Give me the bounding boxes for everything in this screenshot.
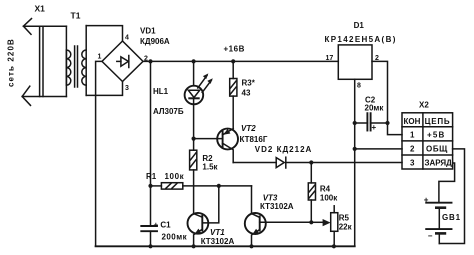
LED HL1 bbox=[185, 61, 213, 138]
junction: pin2 line / C2 bbox=[385, 121, 389, 125]
svg-text:4: 4 bbox=[125, 35, 129, 42]
svg-text:Т1: Т1 bbox=[71, 11, 81, 21]
junction: pin8 / C2 bbox=[353, 121, 357, 125]
junction: VT3 emitter to rail bbox=[249, 244, 253, 248]
svg-text:R3*: R3* bbox=[242, 78, 256, 87]
svg-text:2: 2 bbox=[410, 145, 415, 154]
wire: to X2 ОБЩ row bbox=[355, 148, 402, 150]
junction on rail at C1/R1 feed bbox=[148, 59, 152, 63]
svg-text:D1: D1 bbox=[354, 21, 365, 30]
svg-text:43: 43 bbox=[242, 88, 251, 97]
svg-text:Х2: Х2 bbox=[419, 101, 429, 110]
capacitor C2 bbox=[355, 113, 388, 132]
resistor R2 bbox=[190, 139, 197, 214]
svg-text:КД906А: КД906А bbox=[140, 37, 170, 46]
wire: X2 ЗАРЯД to battery plus bbox=[439, 163, 455, 203]
svg-text:КТ816Г: КТ816Г bbox=[240, 135, 268, 144]
svg-text:ОБЩ: ОБЩ bbox=[426, 145, 448, 154]
svg-text:100к: 100к bbox=[165, 172, 185, 181]
svg-text:100к: 100к bbox=[320, 194, 338, 203]
wire: bridge pin 1 to ground rail bbox=[96, 61, 102, 246]
svg-text:+: + bbox=[372, 123, 377, 132]
junction: R4 / VT3 base / R5 wiper bbox=[309, 220, 313, 224]
junction: C1 to rail bbox=[148, 244, 152, 248]
svg-text:1.5к: 1.5к bbox=[202, 163, 218, 172]
svg-text:АЛ307Б: АЛ307Б bbox=[153, 107, 184, 116]
junction: pin8 / X2 common wire bbox=[353, 147, 357, 151]
svg-text:1: 1 bbox=[410, 131, 415, 140]
svg-text:+16В: +16В bbox=[224, 45, 245, 54]
svg-text:ЗАРЯД: ЗАРЯД bbox=[425, 159, 453, 168]
svg-text:GB1: GB1 bbox=[442, 213, 461, 222]
wire: T1 secondary bottom to bridge pin 3 bbox=[86, 82, 122, 96]
svg-text:VD2 КД212А: VD2 КД212А bbox=[255, 145, 312, 154]
svg-text:VT1: VT1 bbox=[210, 228, 225, 237]
junction on rail at HL1 bbox=[192, 59, 196, 63]
junction: VD2 wire to R4 bbox=[309, 160, 313, 164]
svg-text:1: 1 bbox=[98, 54, 102, 61]
svg-text:VT2: VT2 bbox=[241, 124, 256, 133]
battery GB1 bbox=[424, 195, 452, 243]
transistor VT1 (KT3102A, NPN, mirrored) bbox=[188, 213, 209, 246]
connector X1 arrows (mains plug) bbox=[22, 19, 43, 106]
junction: VT1 emitter to rail bbox=[192, 244, 196, 248]
diode VD2 bbox=[233, 157, 402, 168]
svg-text:Х1: Х1 bbox=[35, 4, 46, 14]
junction: R5 to rail bbox=[332, 244, 336, 248]
svg-text:КТ3102А: КТ3102А bbox=[260, 202, 294, 211]
junction: HL1 cathode / VT2 base / R2 bbox=[192, 137, 196, 141]
svg-text:3: 3 bbox=[125, 85, 129, 92]
svg-text:R4: R4 bbox=[320, 185, 331, 194]
svg-text:КР142ЕН5А(В): КР142ЕН5А(В) bbox=[325, 35, 397, 44]
transistor VT3 (KT3102A, NPN, mirrored) bbox=[245, 186, 311, 246]
ground rail bbox=[96, 245, 355, 247]
svg-text:сеть 220В: сеть 220В bbox=[7, 38, 16, 87]
voltage regulator D1 bbox=[338, 45, 372, 79]
wire: D1 pin 8 (common) down to ground rail bbox=[354, 79, 356, 246]
transformer T1 bbox=[66, 26, 86, 97]
transistor VT2 (KT816G, PNP) bbox=[194, 129, 238, 163]
bridge rectifier VD1 bbox=[102, 41, 143, 82]
svg-text:3: 3 bbox=[410, 159, 415, 168]
wire: riser to VT1 base bbox=[202, 186, 219, 223]
svg-text:VD1: VD1 bbox=[140, 27, 156, 36]
junction on rail at R3 bbox=[231, 59, 235, 63]
wire: T1 secondary top to bridge pin 4 bbox=[86, 26, 122, 41]
svg-text:КТ3102А: КТ3102А bbox=[201, 237, 235, 246]
potentiometer R5 bbox=[311, 206, 338, 247]
connector X2 table bbox=[402, 113, 453, 169]
svg-text:ЦЕПЬ: ЦЕПЬ bbox=[425, 117, 451, 126]
wire: X1 bottom to T1 primary bbox=[22, 96, 66, 98]
svg-text:R2: R2 bbox=[202, 154, 213, 163]
svg-text:+ С1: + С1 bbox=[154, 221, 172, 230]
wire: X1 top to T1 primary bbox=[23, 25, 66, 27]
resistor R1 bbox=[148, 183, 251, 189]
svg-text:HL1: HL1 bbox=[153, 87, 169, 96]
svg-text:R1: R1 bbox=[146, 172, 157, 181]
wire: +16V rail from bridge pin 2 to D1 bbox=[143, 60, 338, 62]
resistor R3 bbox=[230, 61, 237, 128]
svg-text:17: 17 bbox=[326, 55, 334, 62]
junction: R1 wire to VT1 base riser bbox=[217, 184, 221, 188]
svg-text:R5: R5 bbox=[339, 214, 350, 223]
svg-text:−: − bbox=[428, 232, 433, 241]
svg-text:КОН: КОН bbox=[404, 117, 421, 126]
svg-text:20мк: 20мк bbox=[365, 104, 385, 113]
wire: D1 output pin 2 to X2 +5V bbox=[372, 61, 402, 134]
svg-text:8: 8 bbox=[357, 83, 361, 90]
svg-text:+5В: +5В bbox=[427, 131, 446, 140]
resistor R4 bbox=[308, 163, 315, 223]
capacitor C1 bbox=[141, 226, 157, 246]
svg-text:22к: 22к bbox=[339, 222, 353, 231]
wire: X2 ОБЩ to battery minus (right loop) bbox=[439, 149, 464, 244]
svg-text:+: + bbox=[424, 195, 429, 204]
svg-text:200мк: 200мк bbox=[162, 233, 188, 242]
wire: rail down to R1 and C1 bbox=[150, 61, 152, 226]
